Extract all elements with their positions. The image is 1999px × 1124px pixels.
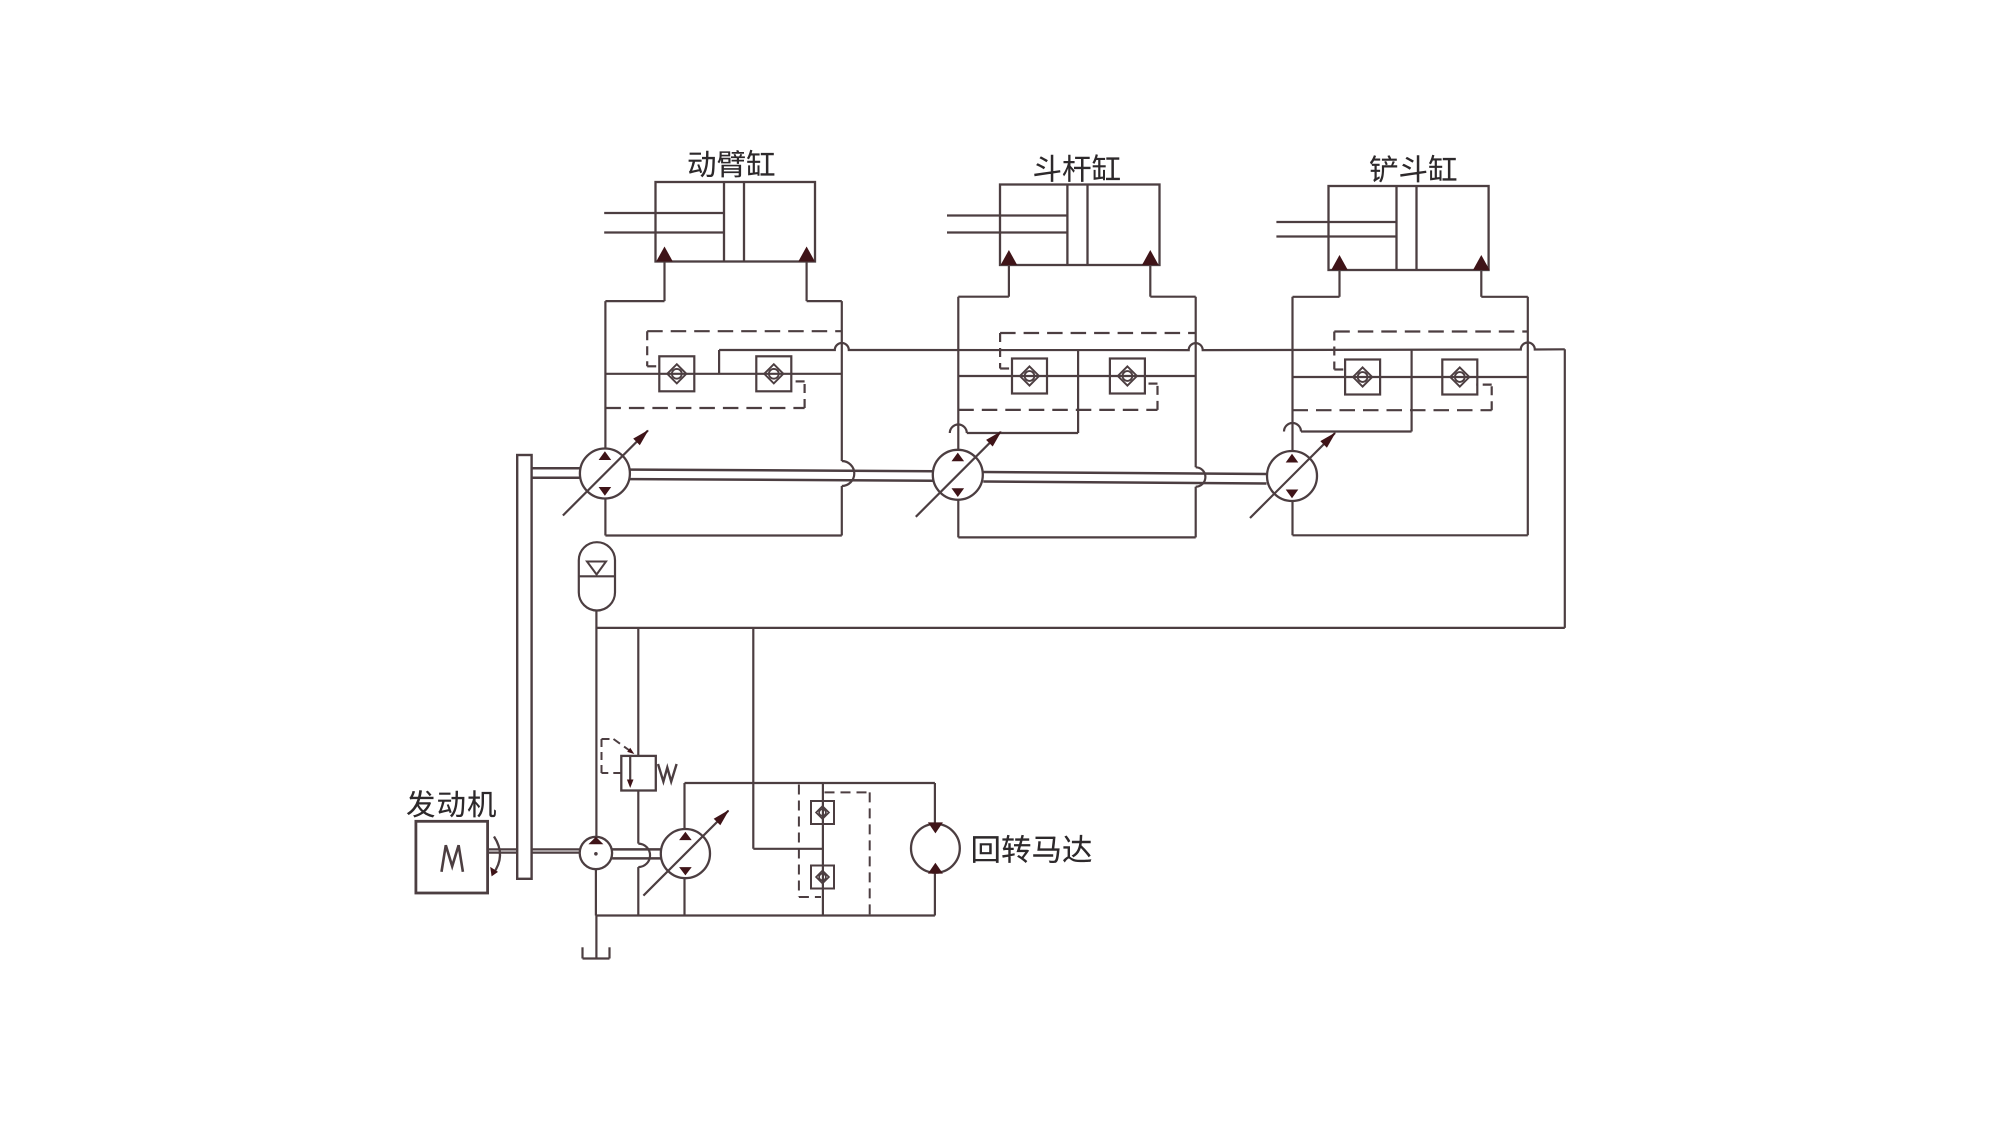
cylinder 动臂缸: right port arrow: [798, 247, 815, 262]
cylinder 动臂缸: piston rod: [604, 213, 724, 233]
valve block V1: top edge: [605, 300, 841, 302]
wire: V1 outlet riser: [718, 350, 720, 374]
relief valve W: body: [621, 756, 656, 791]
valve block V3: right edge: [1527, 297, 1529, 536]
wire: 铲斗缸 left port line: [1338, 270, 1340, 297]
wire: V3 inlet branch with jump over left edge: [1284, 350, 1412, 431]
wire: accumulator drop line to pilot pump: [595, 611, 597, 837]
valve block V2: left edge: [957, 297, 959, 538]
label: engine 发动机: [407, 790, 496, 817]
wire: swing block internal supply line: [822, 783, 824, 916]
cylinder 动臂缸: body: [656, 182, 816, 262]
pilot line (dashed) V1 upper: [647, 331, 842, 366]
wire: engine shaft to gearbox: [488, 849, 518, 852]
valve block V3: bottom edge: [1293, 534, 1528, 536]
valve block V2: right edge: [1196, 297, 1206, 538]
pump PV2: variable displacement pump: [916, 431, 1002, 517]
wire: V2 inlet branch with jump over left edge: [950, 350, 1078, 433]
wire: branch down to swing valve block: [753, 628, 823, 849]
label: boom cylinder 动臂缸: [689, 150, 775, 178]
label: swing motor 回转马达: [973, 835, 1091, 863]
label: bucket cylinder 铲斗缸: [1370, 155, 1457, 183]
pump P-SW: swing variable pump: [643, 810, 729, 896]
wire: 动臂缸 right port line: [805, 262, 807, 302]
cylinder 铲斗缸: left port arrow: [1331, 255, 1348, 270]
pump PV3: variable displacement pump: [1250, 432, 1336, 518]
valve block V1: right edge: [842, 301, 854, 535]
wire: bottom drain line: [596, 914, 935, 916]
valve block V3: top edge: [1293, 296, 1528, 298]
cylinder 铲斗缸: right port arrow: [1473, 255, 1490, 270]
check valve V1-A (pilot-operated): [659, 356, 694, 391]
wire: 动臂缸 left port line: [663, 262, 665, 302]
wire: V2 check-valve gallery line: [958, 375, 1195, 377]
wire: carry-over (cascade) line from V1 to tank riser, with jumps over block edges: [719, 343, 1565, 351]
swing valve block: right edge: [934, 783, 936, 916]
valve block V1: bottom edge: [605, 534, 841, 536]
pilot line (dashed) swing left: [799, 785, 821, 898]
wire: upper drive shaft (gearbox to P-V1): [532, 468, 580, 478]
cylinder 动臂缸: left port arrow: [656, 247, 673, 262]
wire: V1 check-valve gallery line: [605, 373, 841, 375]
tank symbol: [583, 947, 610, 958]
wire: pilot pump suction drop: [595, 869, 598, 958]
swing motor: [911, 822, 960, 873]
swing valve block: left edge: [683, 783, 685, 916]
relief valve W: pilot sense line (dashed): [602, 739, 635, 773]
engine M box: [416, 821, 488, 893]
gearbox (power divider): [517, 455, 531, 879]
valve block V1: left edge: [604, 301, 606, 535]
cylinder 斗杆缸: body: [1000, 185, 1160, 266]
pilot line (dashed) V2 upper: [1000, 333, 1196, 369]
pilot line (dashed) swing right: [825, 792, 870, 915]
pilot (charge) pump: [580, 837, 612, 869]
wire: relief valve outlet down to drain line (jump over shaft): [638, 791, 650, 916]
cylinder 斗杆缸: left port arrow: [1001, 250, 1018, 265]
check valve SW-B: [811, 866, 834, 889]
wire: V3 check-valve gallery line: [1293, 376, 1528, 378]
check valve V3-A (pilot-operated): [1345, 360, 1380, 395]
check valve V1-B (pilot-operated): [756, 356, 791, 391]
wire: right-hand return drop line: [1564, 349, 1566, 628]
accumulator: [579, 542, 615, 610]
cylinder 铲斗缸: body: [1329, 186, 1489, 270]
check valve V3-B (pilot-operated): [1442, 360, 1477, 395]
cylinder 斗杆缸: right port arrow: [1142, 250, 1159, 265]
valve block V2: top edge: [958, 296, 1195, 298]
wire: upper drive shaft (P-V2 to P-V3): [983, 472, 1266, 484]
pump PV1: variable displacement pump: [563, 430, 649, 516]
pilot line (dashed) V3 lower: [1293, 385, 1492, 411]
pilot line (dashed) V2 lower: [958, 384, 1157, 410]
check valve V2-B (pilot-operated): [1110, 359, 1145, 394]
wire: low-pressure return manifold: [596, 627, 1564, 629]
cylinder 斗杆缸: piston rod: [947, 216, 1067, 233]
wire: branch to relief valve W: [637, 628, 639, 756]
relief valve W: spring label: [658, 764, 677, 782]
coupling arc with rotation arrow: [490, 837, 500, 877]
valve block V2: bottom edge: [958, 536, 1195, 538]
engine M letter: [442, 845, 463, 872]
valve block V3: left edge: [1291, 297, 1293, 536]
label: arm cylinder 斗杆缸: [1034, 154, 1120, 182]
pilot line (dashed) V1 lower: [605, 381, 804, 408]
wire: pilot pump shaft to swing pump: [612, 849, 661, 858]
wire: 斗杆缸 left port line: [1008, 265, 1010, 297]
pilot line (dashed) V3 upper: [1334, 332, 1528, 370]
check valve SW-A: [811, 801, 834, 824]
wire: 斗杆缸 right port line: [1149, 265, 1151, 297]
wire: gearbox shaft to pilot pump: [532, 849, 580, 852]
check valve V2-A (pilot-operated): [1012, 359, 1047, 394]
wire: 铲斗缸 right port line: [1480, 270, 1482, 297]
wire: upper drive shaft (P-V1 to P-V2): [630, 470, 933, 481]
cylinder 铲斗缸: piston rod: [1276, 222, 1396, 237]
swing valve block: top edge: [685, 782, 935, 784]
